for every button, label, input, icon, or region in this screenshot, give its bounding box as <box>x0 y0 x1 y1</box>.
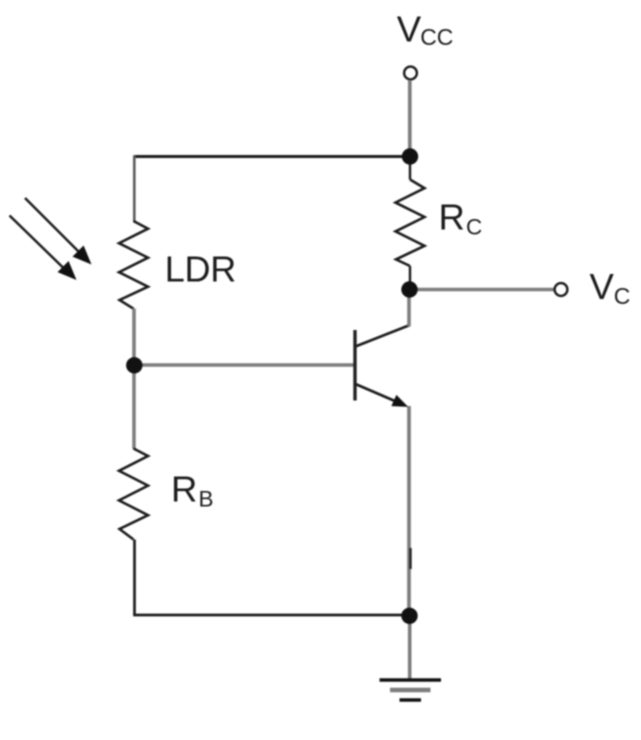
ground bar 3 <box>400 698 422 702</box>
svg-text:R: R <box>171 469 197 510</box>
wire bottom rail horizontal <box>133 614 409 617</box>
terminal Vcc <box>404 67 417 80</box>
wire ground stem <box>408 615 412 680</box>
svg-text:R: R <box>439 197 465 238</box>
wire collector vertical node D to transistor <box>407 294 411 326</box>
transistor Q1 base bar <box>353 330 356 401</box>
light arrow 2 <box>10 216 65 269</box>
svg-text:CC: CC <box>420 24 453 50</box>
svg-text:V: V <box>590 266 615 307</box>
wire top horizontal node A to LDR top <box>134 155 410 158</box>
wire node D to Vc terminal <box>410 288 554 292</box>
wire node B down to RB top <box>132 365 136 449</box>
wire emitter black overlay segment <box>409 548 411 569</box>
ground bar 1 <box>380 678 442 681</box>
wire Vcc terminal to node A <box>408 80 412 152</box>
node B junction dot <box>126 357 142 373</box>
wire RB bottom to bottom rail <box>133 540 136 616</box>
wire left vertical above LDR <box>133 155 136 221</box>
svg-text:B: B <box>199 487 214 512</box>
transistor Q1 emitter diagonal with arrow <box>356 384 396 401</box>
ground bar 2 <box>390 688 431 693</box>
svg-text:LDR: LDR <box>165 249 236 290</box>
node C junction dot <box>401 608 417 624</box>
svg-text:C: C <box>466 214 482 239</box>
svg-text:V: V <box>397 9 422 50</box>
light arrow 1 <box>25 198 80 253</box>
wire RC bottom lead <box>409 266 411 289</box>
node A junction dot <box>402 148 418 164</box>
wire emitter vertical to node C <box>407 406 411 615</box>
terminal Vc <box>555 283 568 296</box>
wire RC top lead <box>409 160 411 180</box>
wire base node B to transistor <box>134 363 355 367</box>
wire LDR bottom to node B <box>132 309 136 366</box>
resistor RB <box>119 449 148 540</box>
resistor RC <box>396 180 425 267</box>
resistor LDR <box>119 221 148 309</box>
node D junction dot <box>401 281 417 297</box>
svg-text:C: C <box>614 283 631 309</box>
transistor Q1 collector diagonal <box>356 325 409 346</box>
